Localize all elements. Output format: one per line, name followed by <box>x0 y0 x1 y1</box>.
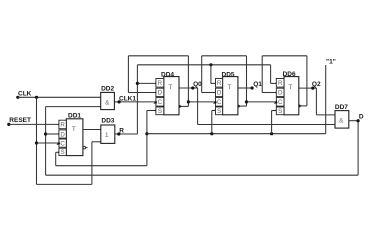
wire D-feedback to DD2 lower input <box>46 106 101 108</box>
svg-text:R: R <box>119 127 124 134</box>
wire Q0 drop <box>197 88 199 125</box>
junction CLK to DD1 C <box>35 141 38 144</box>
svg-text:"1": "1" <box>326 58 336 65</box>
svg-text:S: S <box>278 108 282 115</box>
svg-text:C: C <box>60 140 65 147</box>
wire DD5 loop top <box>202 55 247 57</box>
wire constant 1 drop <box>325 65 327 134</box>
svg-text:CLK: CLK <box>18 91 32 98</box>
pin entry dot DD4 D <box>155 91 157 93</box>
wire CLK branch to DD1 C pin <box>37 142 59 144</box>
pin entry dot DD6 D <box>276 91 278 93</box>
wire Q2 from DD6 <box>299 87 317 89</box>
node D output dot <box>357 119 360 122</box>
svg-text:T: T <box>72 126 76 133</box>
svg-text:D: D <box>278 90 283 97</box>
wire S riser to DD4 <box>146 111 148 166</box>
junction S net DD5 <box>210 132 213 135</box>
pin entry dot DD1 R <box>58 123 60 125</box>
wire Q2 drop <box>315 88 317 115</box>
svg-text:DD2: DD2 <box>101 85 114 92</box>
pin C1 dynamic wedge DD1 <box>56 141 60 145</box>
wire DD4 D line <box>128 92 156 94</box>
svg-text:S: S <box>217 108 221 115</box>
wire Q0 from DD4 <box>179 87 198 89</box>
flip-flop DD6 <box>276 71 299 115</box>
pin entry dot DD4 S <box>155 109 157 111</box>
node CLK1 output dot <box>118 100 121 103</box>
svg-text:C: C <box>158 99 163 106</box>
wire R branch DD5 <box>211 82 216 84</box>
junction S net DD6 <box>270 132 273 135</box>
wire DD6 loop top <box>262 55 307 57</box>
wire CLK riser to DD3 lower input <box>91 142 93 185</box>
svg-text:Q2: Q2 <box>312 81 321 88</box>
svg-text:Q1: Q1 <box>253 81 262 88</box>
pin entry dot DD1 D <box>58 133 60 135</box>
wire CLK bottom horizontal <box>37 183 92 185</box>
wire DD6 loop right <box>306 56 308 106</box>
wire branch to DD1 D pin <box>46 133 59 135</box>
gate DD7 (AND) <box>335 104 349 128</box>
wire R branch DD6 <box>271 82 277 84</box>
svg-text:D: D <box>217 90 222 97</box>
wire S riser DD5 <box>211 111 213 134</box>
node Q0 dot <box>191 86 194 89</box>
wire DD4 Qbar to loop <box>179 105 188 107</box>
wire R drop DD5 <box>210 65 212 84</box>
junction S net <box>145 132 148 135</box>
wire into DD4 S pin <box>147 110 156 112</box>
wire D-feedback vertical <box>45 107 47 176</box>
svg-text:&: & <box>339 119 343 125</box>
flip-flop DD5 <box>216 71 238 115</box>
pin entry dot DD5 R <box>215 82 217 84</box>
wire DD5 D line <box>202 92 216 94</box>
node Q2 dot <box>311 87 314 90</box>
gate DD2 (NAND) <box>101 85 115 109</box>
pin entry dot DD5 S <box>215 109 217 111</box>
wire DD4 loop left <box>127 56 129 93</box>
wire into DD3 lower input <box>92 141 101 143</box>
pin entry dot DD1 S <box>58 151 60 153</box>
wire CLK horizontal to DD2 input <box>18 96 101 98</box>
wire DD4 loop top <box>128 55 188 57</box>
wire DD5 loop right <box>246 56 248 106</box>
wire DD7 output <box>349 120 358 122</box>
node CLK terminal dot <box>16 96 19 99</box>
wire DD6 Qbar to loop <box>299 105 307 107</box>
node R output dot <box>117 132 120 135</box>
pin entry dot DD5 D <box>215 91 217 93</box>
junction DD5 loop to DD6 clock <box>245 100 248 103</box>
svg-text:D: D <box>359 113 364 120</box>
wire S net horizontal <box>147 133 326 135</box>
pin C dynamic wedge DD5 <box>213 100 217 104</box>
wire Q0 to DD7 lower input <box>198 124 335 126</box>
wire DD3 output <box>115 133 138 135</box>
svg-text:R: R <box>158 80 163 87</box>
pin DD1 inverted output bubble <box>83 146 86 149</box>
svg-text:RESET: RESET <box>9 117 31 124</box>
svg-text:S: S <box>158 108 162 115</box>
node DD6 Qbar dot <box>298 105 301 108</box>
svg-text:T: T <box>288 84 292 91</box>
wire RESET to DD1 R pin <box>9 123 59 125</box>
wire R riser <box>136 65 138 134</box>
svg-text:CLK1: CLK1 <box>119 95 136 102</box>
wire DD5 Qbar to DD6 C <box>247 101 277 103</box>
node RESET terminal dot <box>7 123 10 126</box>
wire DD6 D line <box>262 92 276 94</box>
wire into DD5 S pin <box>212 110 216 112</box>
node Q1 dot <box>251 86 254 89</box>
wire DD1 inverted output stub <box>86 147 88 149</box>
wire Q2 to DD7 upper input <box>316 114 335 116</box>
svg-text:T: T <box>227 84 231 91</box>
svg-text:D: D <box>158 90 163 97</box>
wire DD1 Q output to DD3 <box>83 129 101 131</box>
svg-text:T: T <box>168 84 172 91</box>
wire S riser DD6 <box>271 111 273 134</box>
svg-text:DD3: DD3 <box>101 117 114 124</box>
gate DD3 (OR) <box>101 117 115 143</box>
node DD4 Qbar dot <box>178 105 181 108</box>
svg-text:R: R <box>278 80 283 87</box>
svg-text:D: D <box>60 131 65 138</box>
junction CLK branch <box>35 96 38 99</box>
svg-text:R: R <box>60 122 65 129</box>
wire DD1 S pin stub <box>56 151 59 153</box>
wire R net top <box>137 64 270 66</box>
svg-text:Q0: Q0 <box>193 81 202 88</box>
svg-text:R: R <box>217 80 222 87</box>
svg-text:&: & <box>105 100 109 106</box>
pin entry dot DD4 R <box>155 82 157 84</box>
wire DD7 output drop <box>357 121 359 176</box>
pin C dynamic wedge DD4 <box>153 100 157 104</box>
wire S route under DD1 <box>56 165 147 167</box>
junction R to DD5 <box>209 63 212 66</box>
wire long bottom feedback from DD7 <box>46 174 359 176</box>
junction R to DD4 <box>136 82 139 85</box>
node DD5 Qbar dot <box>237 105 240 108</box>
svg-text:1: 1 <box>105 132 109 139</box>
svg-text:DD7: DD7 <box>335 104 348 111</box>
flip-flop DD4 <box>156 71 179 115</box>
junction D-feedback to DD1 D <box>44 132 47 135</box>
junction DD4 loop to DD5 clock <box>187 100 190 103</box>
wire DD4 loop right <box>187 56 189 107</box>
wire DD6 loop left <box>261 56 263 93</box>
wire into DD6 S pin <box>272 110 277 112</box>
wire CLK vertical down <box>36 97 38 184</box>
wire DD4 Qbar to DD5 C <box>188 101 215 103</box>
wire Q1 from DD5 <box>238 87 252 89</box>
pin entry dot DD6 R <box>276 82 278 84</box>
svg-text:C: C <box>217 99 222 106</box>
wire R drop DD6 <box>270 65 272 84</box>
wire DD1 S down <box>55 152 57 165</box>
wire R branch DD4 <box>137 82 156 84</box>
pin entry dot DD6 S <box>276 109 278 111</box>
wire CLK1 from DD2 to DD4 C <box>114 101 155 103</box>
wire DD5 Qbar to loop <box>238 105 247 107</box>
flip-flop DD1 <box>59 112 83 156</box>
svg-text:C: C <box>278 99 283 106</box>
wire DD5 loop left <box>201 56 203 93</box>
svg-text:S: S <box>61 149 65 156</box>
pin connection diamond DD2 out <box>113 101 115 103</box>
pin C dynamic wedge DD6 <box>274 100 278 104</box>
